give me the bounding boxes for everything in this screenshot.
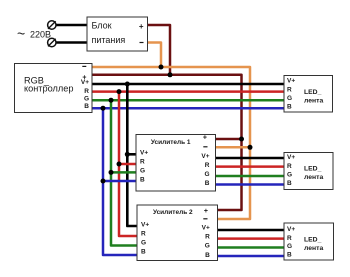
svg-text:B: B <box>205 252 210 259</box>
wire V+ bus (black) controller to LED strip 1 <box>92 83 284 86</box>
svg-text:~: ~ <box>17 26 25 42</box>
svg-text:B: B <box>287 252 292 259</box>
svg-text:V+: V+ <box>141 221 149 228</box>
RGB controller box <box>15 64 93 113</box>
wire amp1 plus branch (dark red) <box>216 138 242 141</box>
wire G bus (green) controller to LED strip 1 <box>92 99 284 102</box>
svg-text:V+: V+ <box>81 79 89 86</box>
junction black V+ bus top <box>125 82 130 87</box>
svg-text:G: G <box>204 171 209 178</box>
wire amp2 B out (blue) to LED strip 3 <box>218 255 285 258</box>
amplifier 1 box (Усилитель 1) <box>136 135 216 192</box>
svg-text:R: R <box>141 230 146 237</box>
junction black at amp1 V+ <box>125 152 130 157</box>
svg-text:V+: V+ <box>287 226 295 233</box>
LED strip 1 box <box>284 76 333 113</box>
svg-text:лента: лента <box>304 245 323 252</box>
svg-text:G: G <box>205 243 210 250</box>
svg-text:B: B <box>287 103 292 110</box>
svg-text:G: G <box>84 95 89 102</box>
junction dark red at PSU plus drop <box>168 72 173 77</box>
svg-text:+: + <box>139 22 144 31</box>
svg-text:Усилитель 1: Усилитель 1 <box>151 139 191 146</box>
svg-text:B: B <box>141 249 146 256</box>
svg-text:R: R <box>287 163 292 170</box>
junction blue at amp1 B <box>101 179 106 184</box>
svg-text:лента: лента <box>304 174 323 181</box>
wire amp2 V+ out (black) to LED strip 3 <box>218 229 285 232</box>
svg-text:контроллер: контроллер <box>24 84 73 94</box>
svg-text:LED_: LED_ <box>304 89 322 96</box>
wire amp2 G out (green) to LED strip 3 <box>218 246 285 249</box>
svg-text:питания: питания <box>92 35 126 45</box>
svg-text:+: + <box>203 135 207 142</box>
svg-text:R: R <box>205 234 210 241</box>
wire amp1 B out (blue) to LED strip 2 <box>216 183 285 186</box>
wire AC line top (black) <box>56 24 88 27</box>
svg-text:Усилитель 2: Усилитель 2 <box>153 209 193 216</box>
junction red R bus top <box>117 89 122 94</box>
svg-text:R: R <box>140 159 145 166</box>
AC terminal circle bottom <box>48 38 56 46</box>
wire amp1 R out (red) to LED strip 2 <box>216 165 285 168</box>
junction green G bus top <box>109 98 114 103</box>
junction blue B bus top <box>101 106 106 111</box>
wire PSU + (dark red) to + bus <box>148 25 171 75</box>
svg-text:V+: V+ <box>202 224 210 231</box>
svg-text:LED_: LED_ <box>304 236 322 243</box>
junction orange at amp1 minus <box>248 145 253 150</box>
svg-text:220В: 220В <box>30 30 51 40</box>
amplifier 2 box (Усилитель 2) <box>137 205 218 261</box>
wire amp1 B input stub (blue) <box>103 180 136 183</box>
wire amp1 V+ out (black) to LED strip 2 <box>216 157 285 160</box>
LED strip 3 box <box>284 223 334 260</box>
svg-text:G: G <box>287 243 292 250</box>
wire R bus (red) controller to LED strip 1 <box>92 90 284 93</box>
svg-text:V+: V+ <box>287 154 295 161</box>
svg-text:B: B <box>287 180 292 187</box>
svg-text:G: G <box>140 168 145 175</box>
wire B bus (blue) controller to LED strip 1 <box>92 107 284 110</box>
junction red at amp1 R <box>117 162 122 167</box>
svg-text:Блок: Блок <box>92 21 112 31</box>
AC terminal circle top <box>48 21 56 29</box>
junction orange at PSU minus drop <box>159 65 164 70</box>
wire V+ vertical drop (black) to amp2 <box>127 84 137 226</box>
wire amp1 minus branch (orange) <box>216 146 251 149</box>
wire - bus orange: controller minus row, down to amp2 minus <box>92 67 250 219</box>
wire AC line bottom (black) <box>56 41 88 44</box>
svg-text:G: G <box>141 239 146 246</box>
svg-text:V+: V+ <box>287 78 295 85</box>
svg-text:лента: лента <box>304 97 323 104</box>
wire amp1 G out (green) to LED strip 2 <box>216 175 285 178</box>
svg-text:V+: V+ <box>140 149 148 156</box>
wire amp1 V+ input stub (black) <box>127 153 136 156</box>
svg-text:R: R <box>205 162 210 169</box>
svg-text:G: G <box>287 171 292 178</box>
junction dark red at amp1 plus <box>239 137 244 142</box>
svg-text:+: + <box>204 208 208 215</box>
wire PSU - (orange) to - bus <box>148 43 162 68</box>
wire R vertical drop (red) to amp2 <box>119 92 137 236</box>
wire amp1 G input stub (green) <box>111 171 136 174</box>
svg-text:G: G <box>287 95 292 102</box>
svg-text:R: R <box>84 88 89 95</box>
junction green at amp1 G <box>109 170 114 175</box>
svg-text:B: B <box>84 103 89 110</box>
wire + bus dark red: controller plus row, down to amp2 plus <box>92 75 242 210</box>
svg-text:R: R <box>287 235 292 242</box>
svg-text:R: R <box>287 86 292 93</box>
wire amp1 R input stub (red) <box>119 163 136 166</box>
wire G vertical drop (green) to amp2 <box>111 100 137 245</box>
svg-text:B: B <box>205 180 210 187</box>
svg-text:B: B <box>140 177 145 184</box>
svg-text:LED_: LED_ <box>304 166 322 173</box>
svg-text:V+: V+ <box>201 153 209 160</box>
power supply box (Блок питания) <box>87 17 148 51</box>
wire B vertical drop (blue) to amp2 <box>103 108 137 255</box>
wire amp2 R out (red) to LED strip 3 <box>218 237 285 240</box>
LED strip 2 box <box>284 153 333 190</box>
